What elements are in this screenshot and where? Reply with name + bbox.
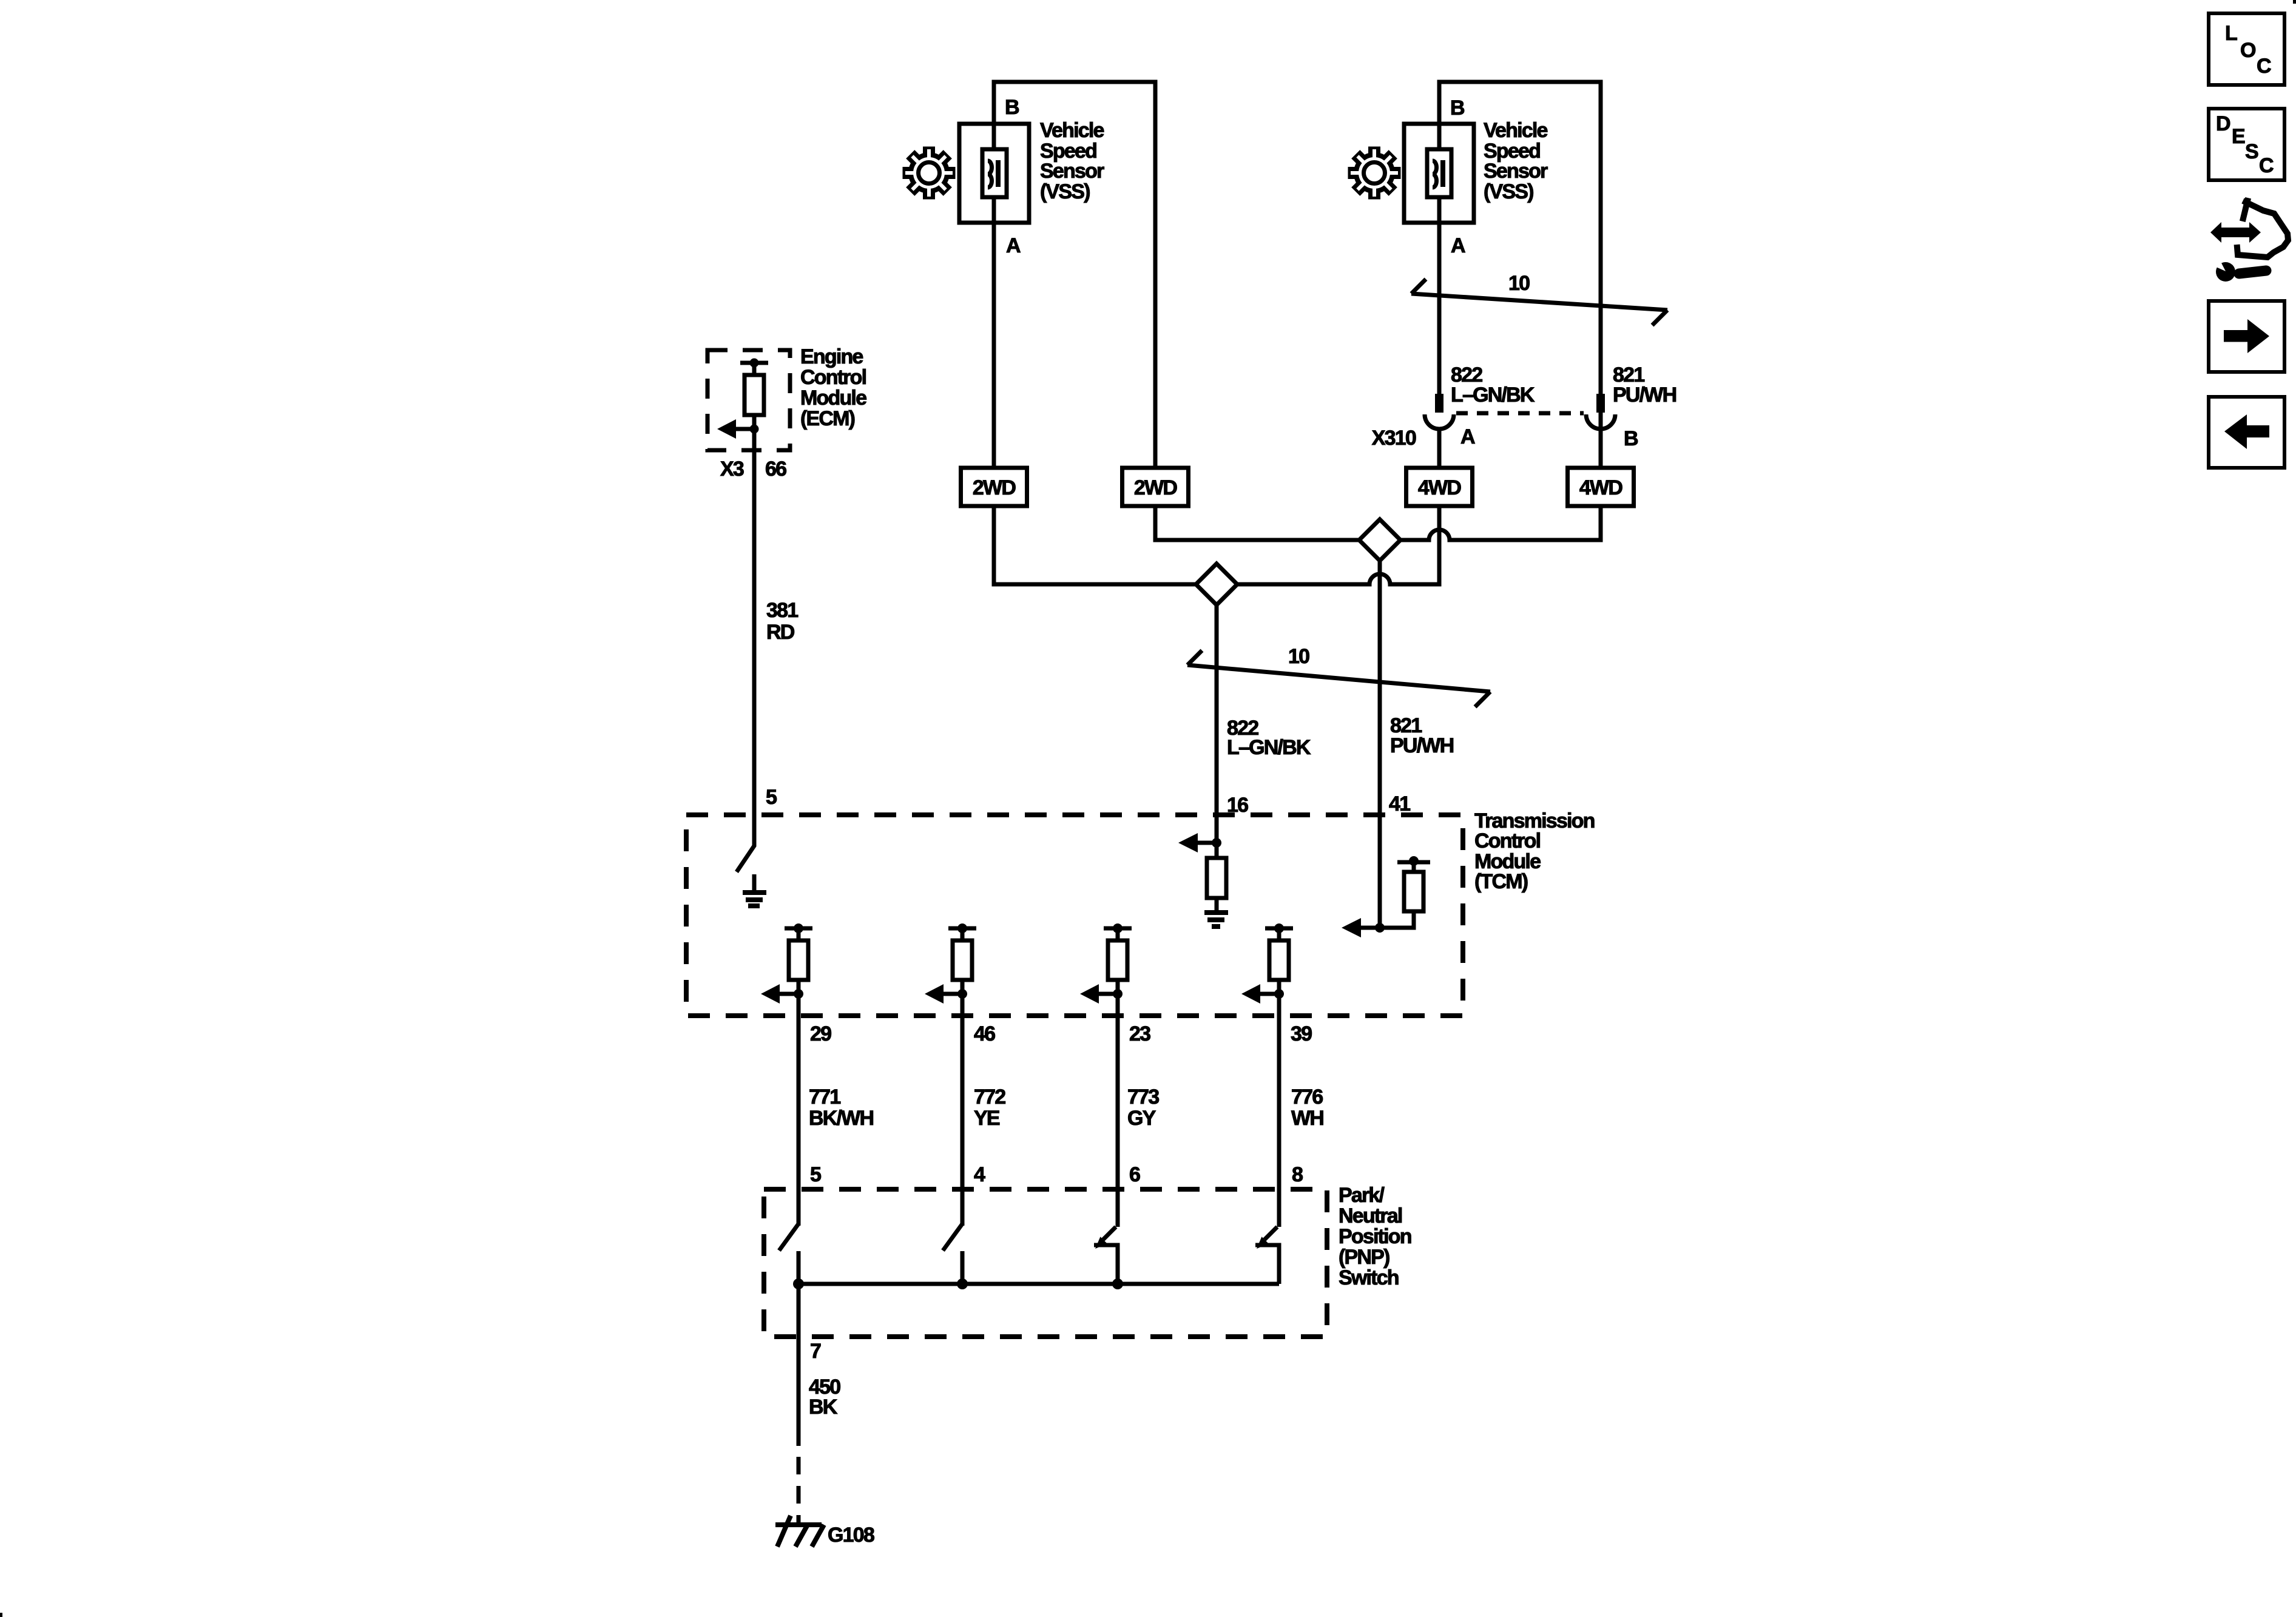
svg-text:Control: Control [1474,829,1541,852]
svg-text:2WD: 2WD [973,476,1016,499]
TCM pin46 pull-up circuit [948,927,976,931]
wire 772 TCM to PNP [961,1016,965,1226]
svg-text:776: 776 [1291,1085,1323,1109]
TCM pin5 internal switch lever [737,815,754,872]
svg-text:C: C [2259,154,2274,177]
svg-text:29: 29 [810,1022,831,1045]
ECM terminal bar + junction dot [740,361,768,365]
wire through right VSS box [1437,124,1442,223]
PNP switch 776 lever + arrow + contact plate [1264,1227,1277,1240]
connector X310 dashed tie line [1456,411,1584,416]
svg-text:Module: Module [800,387,866,410]
svg-text:A: A [1451,234,1465,257]
svg-text:23: 23 [1129,1022,1150,1045]
TCM pin16 resistor [1215,843,1219,858]
svg-text:RD: RD [766,621,795,644]
page corner mark bottom left [0,1613,2,1617]
svg-text:GY: GY [1127,1107,1156,1130]
svg-text:Park/: Park/ [1339,1184,1385,1207]
svg-text:Position: Position [1339,1225,1411,1248]
connector X310 female cup B [1586,414,1615,429]
TCM pin16 ground [1215,898,1219,910]
wire 450 BK out of PNP pin 7 [797,1284,801,1446]
svg-text:772: 772 [974,1085,1005,1109]
svg-text:L–GN/BK: L–GN/BK [1227,736,1311,759]
svg-text:5: 5 [766,786,777,809]
TCM pin41 resistor branch [1380,911,1414,928]
PNP switch 773 lever + arrow + contact plate [1103,1227,1116,1240]
svg-text:773: 773 [1127,1085,1159,1109]
wire: right VSS loop B-up-over-down to 4WD#2 [1439,82,1601,468]
svg-text:PU/WH: PU/WH [1390,734,1454,757]
svg-text:E: E [2232,125,2245,148]
wire 821 from diamond down to TCM pin 41 [1378,561,1382,928]
TCM pin16 junction dot + input arrow [1212,838,1221,848]
2WD box 2 [1123,468,1189,506]
wire 450 BK dashed continuation [797,1457,801,1505]
wire 773 TCM to PNP [1116,1016,1120,1227]
PNP switch 772 lever + contact [943,1224,962,1251]
svg-text:(VSS): (VSS) [1040,180,1090,203]
page corner mark top right [2293,0,2296,4]
splice diamond (821) on upper run [1359,519,1400,561]
svg-text:66: 66 [765,457,786,481]
TCM pin29 pull-up circuit [785,927,812,931]
svg-text:4WD: 4WD [1418,476,1461,499]
coil squiggle + bar right [1433,161,1437,187]
wire: left VSS loop B-up-over-down to 2WD#2 [994,82,1155,468]
svg-text:41: 41 [1389,792,1410,815]
svg-text:BK: BK [809,1396,838,1419]
VSS sensor box left [959,124,1029,223]
svg-text:O: O [2240,39,2256,62]
svg-text:X310: X310 [1372,427,1416,450]
inner sensor element box left [982,149,1007,197]
ECM output arrow [734,427,754,431]
2WD box 1 [961,468,1027,506]
wire below X310 cup B to 4WD box [1599,429,1603,468]
TCM pin41 junction dot + input arrow [1375,923,1385,933]
svg-text:Sensor: Sensor [1484,160,1548,183]
svg-text:YE: YE [974,1107,1000,1130]
svg-text:L–GN/BK: L–GN/BK [1451,383,1535,407]
off-page cut symbol 10 (upper) [1411,294,1667,310]
svg-text:(TCM): (TCM) [1474,870,1528,893]
PNP common bus [799,1282,1279,1286]
gear icon left VSS [903,147,956,200]
svg-text:5: 5 [810,1163,821,1186]
svg-text:(ECM): (ECM) [800,407,855,430]
svg-text:46: 46 [974,1022,995,1045]
junction dot 772/bus [957,1278,968,1289]
svg-text:Vehicle: Vehicle [1484,119,1547,142]
svg-text:L: L [2225,22,2237,45]
svg-text:A: A [1460,425,1475,448]
ECM junction dot lower [750,425,759,434]
PNP switch 771 lever + contact [779,1224,799,1251]
svg-text:(PNP): (PNP) [1339,1246,1389,1269]
ECM dashed box [707,350,790,450]
back arrow nav box [2209,397,2284,468]
svg-text:Vehicle: Vehicle [1040,119,1104,142]
VSS sensor box right [1404,124,1474,223]
off-page cut symbol 10 (lower) [1187,665,1490,692]
gear icon right VSS [1348,147,1401,200]
wire through left VSS box [992,124,996,223]
wire below X310 cup A to 4WD box [1437,429,1442,468]
car-with-wrench icon [2237,201,2288,257]
svg-text:Control: Control [800,366,866,389]
TCM pin5 internal ground [752,874,757,890]
ECM resistor [745,375,764,415]
svg-text:381: 381 [766,599,798,622]
svg-text:7: 7 [810,1340,821,1363]
coil squiggle + bar left [988,161,992,187]
svg-text:4WD: 4WD [1579,476,1622,499]
svg-text:8: 8 [1292,1163,1303,1186]
wire 776 TCM to PNP [1277,1016,1281,1227]
car icon double arrow [2210,222,2261,243]
wire: 2WD#2 down and horizontal run to 4WD#2 (hop over 4WD#1 wire) [1155,506,1601,540]
svg-text:S: S [2245,140,2258,163]
svg-text:D: D [2216,112,2230,135]
svg-text:10: 10 [1288,645,1309,668]
PNP dashed box [764,1189,1327,1337]
svg-text:BK/WH: BK/WH [809,1107,873,1130]
svg-text:C: C [2257,55,2271,78]
TCM pin39 pull-up circuit [1265,927,1293,931]
forward arrow nav box [2209,301,2284,372]
svg-text:10: 10 [1508,272,1530,295]
svg-text:(VSS): (VSS) [1484,180,1533,203]
wire 822 from diamond down to TCM pin 16 [1215,605,1219,843]
DESC nav box [2209,109,2284,180]
svg-text:Switch: Switch [1339,1266,1399,1289]
svg-text:A: A [1006,234,1021,257]
ground G108 [775,1522,822,1527]
wrench icon [2239,271,2266,274]
svg-text:39: 39 [1291,1022,1312,1045]
4WD box 2 [1568,468,1634,506]
svg-text:WH: WH [1291,1107,1323,1130]
junction dot 773/bus [1112,1278,1123,1289]
wire: left VSS A down to 2WD#1 handled by same vertical; segment below box to 2WD#1 [992,219,996,468]
svg-text:Sensor: Sensor [1040,160,1104,183]
svg-text:B: B [1624,427,1638,450]
connector X310 male pin A [1435,394,1443,413]
ECM wire 381 RD from ECM to TCM pin 5 [752,363,757,815]
TCM dashed box [686,815,1463,1016]
wire 771 TCM to PNP [797,1016,801,1226]
svg-text:771: 771 [809,1085,840,1109]
svg-text:2WD: 2WD [1134,476,1177,499]
svg-text:6: 6 [1129,1163,1140,1186]
svg-text:X3: X3 [720,457,744,481]
connector X310 female cup A [1425,414,1454,429]
inner sensor element box right [1427,149,1451,197]
svg-text:PU/WH: PU/WH [1613,383,1676,407]
TCM pin23 pull-up circuit [1104,927,1132,931]
wire: 2WD#1 down and horizontal run to 4WD#1 (hop over 821 wire) [994,506,1439,584]
svg-text:Neutral: Neutral [1339,1204,1402,1227]
4WD box 1 [1406,468,1473,506]
svg-text:Engine: Engine [800,345,863,368]
svg-text:4: 4 [974,1163,985,1186]
svg-text:B: B [1005,96,1019,119]
svg-text:G108: G108 [828,1524,874,1547]
svg-text:B: B [1450,96,1465,120]
connector X310 male pin B [1596,394,1605,413]
junction dot 771/bus [793,1278,804,1289]
splice diamond (822) on lower run [1196,564,1237,605]
LOC nav box [2209,13,2284,85]
